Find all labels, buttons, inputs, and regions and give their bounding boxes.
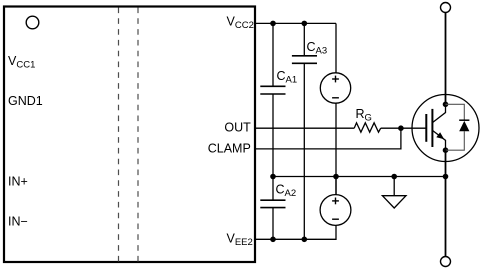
capacitor CA1 — [260, 86, 285, 94]
emitter arrowhead — [436, 132, 444, 139]
wire RG to gate node — [381, 127, 426, 129]
capacitor CA2 — [260, 200, 285, 207]
emitter node dot — [443, 147, 449, 153]
wire VCC2 down to CA1 — [272, 23, 274, 86]
isolation barrier dashed line left — [118, 8, 120, 262]
IGBT Q1 — [412, 95, 479, 162]
wire CA1 bottom down to CA2 (crosses OUT and CLAMP) — [272, 94, 274, 200]
diode cathode bar — [459, 119, 469, 121]
isolation barrier dashed line right — [137, 8, 139, 262]
node junction dot CA2 top — [270, 174, 276, 180]
collector node dot — [443, 102, 449, 108]
node junction dot ground stub — [391, 174, 397, 180]
node junction dot VCC2/CA1 — [270, 21, 276, 27]
node junction dot VEE2/CA3 line — [302, 237, 308, 243]
wire CLAMP from pin — [255, 128, 401, 149]
pin 1 indicator circle — [26, 16, 39, 29]
terminal circle top (DC bus +) — [441, 3, 451, 13]
diode triangle — [459, 121, 469, 131]
wire mid rail (emitter reference) — [273, 176, 446, 178]
wire V2 bottom to VEE2 rail — [255, 225, 336, 239]
IGBT body circle — [412, 95, 479, 162]
freewheeling diode D1 — [446, 104, 470, 150]
voltage source V1 (VCC2 supply) — [320, 73, 350, 103]
ground symbol — [382, 196, 406, 208]
wire collector from terminal — [445, 13, 447, 105]
node junction dot emitter rail — [443, 174, 449, 180]
gate bar left — [425, 114, 427, 142]
wire VCC2 rail — [255, 22, 336, 24]
wire VCC2 down to CA3 — [303, 23, 305, 55]
svg-text:OUT: OUT — [224, 120, 251, 134]
node junction dot VEE2/CA2 — [270, 237, 276, 243]
svg-text:IN−: IN− — [8, 215, 28, 229]
node junction dot VCC2/CA3 — [302, 21, 308, 27]
wire OUT from pin to resistor — [255, 127, 354, 129]
node junction dot V1/V2 mid — [333, 174, 339, 180]
wire CA2 bottom to VEE2 rail — [272, 208, 274, 240]
gate driver IC U1 body — [4, 7, 255, 263]
svg-text:IN+: IN+ — [8, 174, 28, 188]
wire emitter down to terminal — [445, 150, 447, 256]
wire VCC2 corner down to VDD source — [335, 23, 337, 73]
emitter angled line — [433, 131, 446, 151]
resistor RG — [354, 123, 381, 132]
body bar right — [431, 109, 433, 147]
terminal circle bottom (power ground) — [441, 257, 451, 267]
svg-text:CLAMP: CLAMP — [208, 141, 251, 155]
node gate junction dot — [398, 125, 404, 131]
svg-text:GND1: GND1 — [8, 94, 43, 108]
voltage source V2 (VEE2 supply) — [320, 177, 351, 226]
capacitor CA3 — [292, 56, 317, 64]
wire V1 bottom down to mid rail (crosses OUT, CLAMP) — [335, 103, 337, 195]
ground stub wire — [393, 177, 395, 196]
wire CA3 bottom down to VEE2 rail — [303, 63, 305, 239]
collector angled line — [433, 104, 446, 122]
